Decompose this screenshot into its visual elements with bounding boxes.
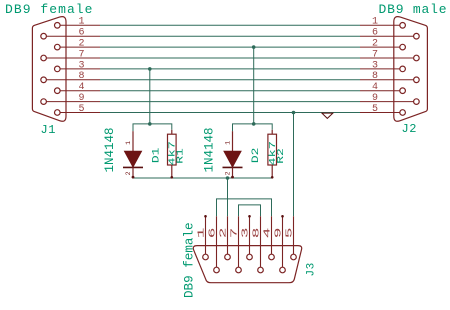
wire net 4 <box>100 90 360 92</box>
junction on net 2 <box>252 45 256 49</box>
pin J1 pin 1 <box>60 24 100 26</box>
wire net 5 drop to J3 pin 5 <box>293 113 295 217</box>
junction on net 5 <box>292 111 296 115</box>
pin J2 pin 1 <box>360 24 400 26</box>
svg-text:6: 6 <box>208 228 218 239</box>
wire net 3 tap down to D1/R1 <box>149 69 151 124</box>
svg-text:8: 8 <box>79 71 85 82</box>
junction top node D1-R1 <box>148 122 152 126</box>
junction on net 3 <box>148 67 152 71</box>
svg-text:1: 1 <box>225 141 232 145</box>
pin J1 pin 8 <box>46 79 100 81</box>
svg-text:DB9 female: DB9 female <box>5 2 94 17</box>
resistor R1 4k7 <box>168 130 177 179</box>
pin J2 pin 2 <box>360 46 400 48</box>
pin J3 pin 9 <box>282 216 284 267</box>
pin J1 pin 7 <box>46 57 100 59</box>
wire drop to J3 pin 2 <box>227 178 229 216</box>
svg-text:2: 2 <box>219 228 229 239</box>
svg-text:3: 3 <box>79 60 85 71</box>
wire net 8 <box>100 79 360 81</box>
svg-text:2: 2 <box>79 39 85 50</box>
svg-text:R1: R1 <box>176 148 186 164</box>
pin J3 pin 5 <box>293 216 295 254</box>
resistor R2 4k7 <box>268 130 277 179</box>
wire net 9 <box>100 101 360 103</box>
wire loop J3 pin 7 to pin 8 <box>239 205 261 216</box>
svg-text:J2: J2 <box>402 122 418 136</box>
junction bottom node at drop to J3 pin 2 <box>226 176 230 180</box>
svg-text:8: 8 <box>252 228 262 239</box>
svg-text:7: 7 <box>372 49 378 60</box>
svg-text:J3: J3 <box>305 262 317 276</box>
svg-text:R2: R2 <box>276 148 286 164</box>
svg-text:5: 5 <box>285 228 295 239</box>
pin J2 pin 3 <box>360 68 400 70</box>
svg-text:5: 5 <box>79 104 85 115</box>
svg-text:J1: J1 <box>41 123 57 137</box>
connector J3 DB9 female <box>193 246 301 283</box>
wire bottom node rail <box>133 177 272 179</box>
svg-text:DB9 female: DB9 female <box>182 222 196 298</box>
svg-text:3: 3 <box>241 228 251 239</box>
svg-text:1: 1 <box>79 17 85 28</box>
pin J3 pin 6 <box>216 216 218 267</box>
svg-text:9: 9 <box>372 93 378 104</box>
pin J3 pin 8 <box>260 216 262 267</box>
svg-text:1N4148: 1N4148 <box>202 127 216 172</box>
pin J1 pin 3 <box>60 68 100 70</box>
connector J2 DB9 male <box>394 17 428 122</box>
svg-text:D1: D1 <box>150 148 162 163</box>
pin end dot J3 pin 1 <box>204 215 207 218</box>
diode D2 1N4148 <box>223 131 243 178</box>
pin J2 pin 5 <box>360 112 400 114</box>
svg-text:1: 1 <box>125 141 132 145</box>
wire net 5 <box>100 112 360 114</box>
svg-text:2: 2 <box>125 171 132 175</box>
pin J2 pin 8 <box>360 79 414 81</box>
connector J1 DB9 female <box>32 17 66 122</box>
svg-text:6: 6 <box>79 28 85 39</box>
svg-text:2: 2 <box>372 39 378 50</box>
wire net 2 tap down to D2/R2 <box>253 47 255 124</box>
wire net 6 <box>100 35 360 37</box>
svg-text:4: 4 <box>263 228 273 239</box>
svg-text:7: 7 <box>230 228 240 239</box>
svg-text:D2: D2 <box>249 148 261 163</box>
pin end dot J3 pin 3 <box>248 215 251 218</box>
pin end dot J3 pin 9 <box>281 215 284 218</box>
svg-text:9: 9 <box>79 93 85 104</box>
svg-text:9: 9 <box>274 228 284 239</box>
pin J3 pin 1 <box>205 216 207 254</box>
svg-text:1: 1 <box>197 228 207 239</box>
pin J1 pin 4 <box>60 90 100 92</box>
svg-text:4: 4 <box>372 82 378 93</box>
svg-text:6: 6 <box>372 28 378 39</box>
pin J1 pin 9 <box>46 101 100 103</box>
wire net 7 <box>100 57 360 59</box>
pin J3 pin 3 <box>249 216 251 254</box>
pin J1 pin 2 <box>60 46 100 48</box>
diode D1 1N4148 <box>123 131 143 178</box>
pin J2 pin 7 <box>360 57 414 59</box>
svg-text:7: 7 <box>79 49 85 60</box>
wire net 3 <box>100 68 360 70</box>
pin J3 pin 4 <box>271 216 273 254</box>
pin J2 pin 4 <box>360 90 400 92</box>
svg-text:5: 5 <box>372 104 378 115</box>
wire top node rail D2-R2 <box>233 124 273 131</box>
wire net 2 <box>100 46 360 48</box>
svg-text:DB9 male: DB9 male <box>379 2 448 17</box>
svg-text:1: 1 <box>372 17 378 28</box>
pin J2 pin 6 <box>360 35 414 37</box>
pin J3 pin 2 <box>227 216 229 254</box>
wire loop J3 pin 6 to pin 4 <box>217 199 272 216</box>
wire top node rail D1-R1 <box>133 124 172 131</box>
svg-text:4: 4 <box>79 82 85 93</box>
svg-text:8: 8 <box>372 71 378 82</box>
pin J3 pin 7 <box>238 216 240 267</box>
pin J2 pin 9 <box>360 101 414 103</box>
svg-text:1N4148: 1N4148 <box>103 127 117 172</box>
svg-text:2: 2 <box>225 171 232 175</box>
pin J1 pin 6 <box>46 35 100 37</box>
junction top node D2-R2 <box>252 122 256 126</box>
net marker triangle on net 5 <box>322 113 333 118</box>
pin J1 pin 5 <box>60 112 100 114</box>
svg-text:3: 3 <box>372 60 378 71</box>
wire net 1 <box>100 24 360 26</box>
